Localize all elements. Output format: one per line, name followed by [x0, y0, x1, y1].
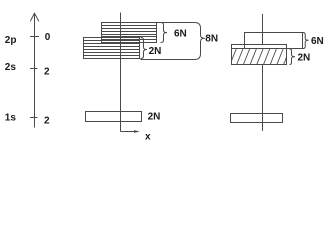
brace 6N (right 2p box)	[303, 33, 309, 49]
brace 2N (right 2s box)	[290, 49, 296, 65]
energy axis (left)	[34, 13, 36, 127]
tick 1s level	[30, 117, 38, 119]
2p band box middle (6N states, striped)	[102, 23, 157, 43]
1s band box middle	[86, 112, 142, 122]
svg-text:8N: 8N	[205, 34, 218, 45]
svg-text:2N: 2N	[148, 112, 161, 123]
brace 8N (merged 2s+2p band, long arms)	[141, 23, 205, 60]
brace 6N (middle 2p box)	[161, 23, 168, 43]
1s band box right	[231, 114, 283, 123]
tick 2p level	[30, 36, 39, 38]
svg-text:2N: 2N	[298, 53, 311, 64]
2s band box right (hatched, filled with 2N electrons)	[230, 45, 290, 65]
svg-text:2N: 2N	[149, 46, 162, 57]
svg-text:x: x	[145, 132, 151, 143]
svg-text:2: 2	[44, 115, 50, 126]
brace 2N (middle 2s box)	[141, 38, 148, 59]
central vertical line (lattice position axis)	[120, 13, 122, 132]
svg-text:2s: 2s	[5, 62, 17, 73]
x axis arrowhead	[134, 130, 140, 133]
svg-text:2p: 2p	[5, 35, 17, 46]
svg-text:6N: 6N	[174, 29, 187, 40]
top of filled (hatched) region inside 2s box	[232, 48, 287, 50]
2s band box middle (2N states, striped)	[84, 38, 140, 59]
2p band box right (6N states, empty)	[245, 33, 303, 49]
axis arrowhead	[30, 13, 39, 21]
svg-text:0: 0	[45, 32, 51, 43]
tick 2s level	[30, 68, 38, 70]
svg-text:6N: 6N	[311, 36, 324, 47]
right vertical line (compressed lattice axis)	[262, 14, 264, 131]
svg-text:2: 2	[44, 67, 50, 78]
svg-text:1s: 1s	[5, 113, 17, 124]
x axis line	[121, 131, 136, 133]
